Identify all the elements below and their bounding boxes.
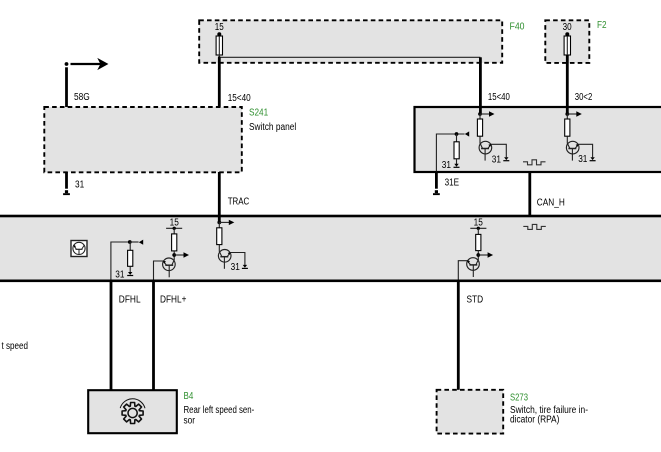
wire dot to resistor (TRAC) (218, 222, 220, 228)
node dot (TRAC, band) (217, 221, 221, 225)
resistor R (30<2 input) (565, 119, 570, 136)
resistor R (15<40 input) (477, 119, 482, 136)
svg-text:F40: F40 (510, 21, 525, 32)
wire resistor to transistor (TRAC) (218, 245, 220, 252)
svg-text:30<2: 30<2 (575, 92, 593, 103)
arrow out (15<40 input) (480, 111, 495, 116)
internal wire DFHL (band) (111, 242, 130, 280)
wire emitter to ground (Q1) (491, 144, 506, 157)
wire dot to resistor (15<40 input) (479, 114, 481, 119)
svg-text:15<40: 15<40 (228, 93, 251, 104)
wire TRAC stub inside band (218, 217, 221, 223)
fuse 15 in F40 (216, 32, 222, 59)
junction dot (DFHL+) (172, 253, 176, 257)
wire STD (band to S273) (457, 281, 460, 391)
fuse 30 in F2 (564, 32, 570, 55)
node dot (15<40 input, control unit) (478, 112, 482, 116)
svg-text:58G: 58G (74, 92, 90, 103)
wire resistor to ground (left input) (456, 159, 458, 164)
component icon (sensor electronics) (71, 241, 87, 257)
wire resistor to ground (DFHL) (129, 266, 131, 272)
junction dot (DFHL) (128, 240, 132, 244)
svg-text:dicator (RPA): dicator (RPA) (510, 414, 559, 425)
wire rail to resistor (STD) (477, 228, 479, 234)
wire dot to arrow (DFHL) (130, 241, 139, 243)
input arrowhead (left input) (465, 131, 469, 136)
arrow 58G (to other circuit) (71, 59, 108, 69)
svg-text:31: 31 (578, 154, 588, 165)
CAN pulse symbol (control unit) (523, 160, 546, 165)
svg-text:15: 15 (215, 22, 224, 33)
svg-text:sor: sor (184, 416, 196, 427)
svg-text:31: 31 (492, 154, 502, 165)
wire 30<2 (F2 fuse to control unit) (566, 55, 569, 114)
svg-text:TRAC: TRAC (228, 197, 250, 208)
wire TRAC (218, 172, 221, 222)
resistor (DFHL) (128, 250, 133, 266)
arrow out (DFHL+) (174, 252, 189, 257)
wire dot to resistor (DFHL) (129, 242, 131, 251)
internal wire (left input, control unit) (436, 134, 464, 172)
svg-text:DFHL+: DFHL+ (160, 295, 187, 306)
ground 31 (Q1) (503, 157, 509, 161)
transistor Q3 (DFHL+) (163, 258, 176, 277)
transistor Q2 (control unit) (566, 141, 579, 160)
wire CAN_H (528, 172, 531, 217)
terminal 15 rail (DFHL+) (166, 227, 182, 230)
svg-text:31E: 31E (445, 177, 460, 188)
wire resistor to transistor (DFHL+) (173, 251, 175, 260)
svg-text:31: 31 (115, 270, 125, 281)
wire 15<40 (F40 fuse to S241) (218, 57, 221, 107)
svg-text:S273: S273 (510, 392, 528, 403)
CAN pulse symbol (band) (523, 224, 546, 229)
gear icon (B4) (120, 399, 145, 424)
resistor (TRAC) (217, 228, 222, 245)
wire emitter to STD (Q5) (458, 261, 467, 280)
junction dot (left input) (455, 132, 459, 136)
junction dot (STD) (476, 253, 480, 257)
resistor (STD) (476, 234, 481, 250)
resistor (left input) (454, 142, 459, 159)
wire 31E (435, 172, 438, 189)
svg-text:15: 15 (474, 217, 484, 228)
wire emitter to DFHL+ (Q3) (154, 261, 164, 280)
wire 30<2 stub inside control unit (566, 107, 569, 114)
transistor Q4 (TRAC) (218, 250, 231, 269)
wire emitter to ground (Q4) (230, 253, 245, 266)
svg-text:30: 30 (563, 22, 572, 33)
wire resistor to transistor (15<40 input) (479, 136, 481, 143)
ground 31 (Q2) (590, 157, 596, 161)
wire 15<40 stub inside control unit (479, 107, 482, 114)
wire emitter to ground (Q2) (578, 144, 592, 157)
svg-text:31: 31 (75, 180, 85, 191)
wire resistor to transistor (STD) (477, 251, 479, 260)
ground 31 (Q4) (242, 265, 248, 269)
svg-text:CAN_H: CAN_H (537, 197, 565, 208)
transistor Q1 (control unit) (479, 141, 492, 160)
control unit box (ABS) (415, 107, 661, 172)
switch panel S241 (44, 107, 242, 172)
svg-text:31: 31 (442, 160, 452, 171)
wire 15<40 (F40 bus to control unit) (479, 57, 482, 114)
svg-text:31: 31 (231, 262, 241, 273)
svg-text:15: 15 (170, 217, 180, 228)
bus wire inside F40 (219, 56, 480, 58)
main band (wiring harness / ECU band) (0, 216, 661, 281)
wire to resistor (left input) (456, 134, 458, 142)
wire DFHL (band to B4) (110, 281, 113, 391)
wire dot to resistor (30<2 input) (566, 114, 568, 119)
svg-text:Switch panel: Switch panel (249, 122, 296, 133)
arrow out (30<2 input) (567, 111, 582, 116)
fuse box F40 (199, 20, 502, 63)
fuse box F2 (545, 20, 589, 63)
svg-text:F2: F2 (597, 20, 607, 31)
transistor Q5 (STD) (467, 258, 480, 277)
svg-text:B4: B4 (184, 391, 194, 402)
ground 31 (DFHL) (127, 272, 133, 276)
sensor B4 box (88, 390, 177, 433)
svg-text:S241: S241 (249, 108, 269, 119)
wire DFHL+ (band to B4) (152, 281, 155, 391)
arrow out (TRAC) (219, 220, 234, 225)
input arrowhead (DFHL) (139, 240, 143, 245)
wire 58G (65, 67, 68, 107)
wire rail to resistor (DFHL+) (173, 228, 175, 234)
arrow out (STD) (478, 252, 493, 257)
terminal 15 rail (STD) (470, 227, 486, 230)
resistor (DFHL+) (172, 234, 177, 251)
ground 31E (433, 190, 440, 195)
wire to ground below S241 (65, 172, 68, 189)
switch S273 box (437, 390, 504, 434)
ground 31 below S241 (63, 190, 70, 195)
node 58G junction dot (65, 62, 69, 66)
ground 31 (left input) (454, 164, 460, 168)
svg-text:15<40: 15<40 (488, 92, 510, 103)
node dot (30<2 input, control unit) (565, 112, 569, 116)
wire resistor to transistor (30<2 input) (566, 136, 568, 143)
svg-text:t speed: t speed (2, 341, 29, 352)
svg-text:DFHL: DFHL (119, 295, 141, 306)
svg-text:STD: STD (467, 295, 484, 306)
